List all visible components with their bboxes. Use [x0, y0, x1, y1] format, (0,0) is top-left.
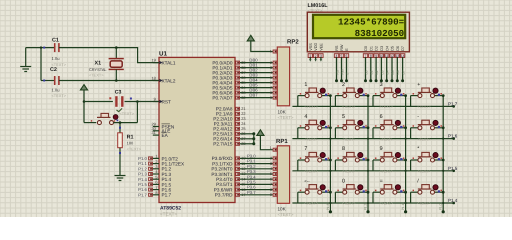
svg-text:3: 3 [380, 82, 383, 88]
svg-text:+: + [417, 82, 420, 88]
svg-text:VDD: VDD [314, 43, 318, 51]
svg-text:P1.3: P1.3 [326, 203, 330, 210]
wire keypad column 1 [329, 96, 331, 212]
svg-text:<TEXT>: <TEXT> [380, 202, 393, 206]
pin 29 PSEN [153, 126, 159, 128]
svg-text:7: 7 [304, 146, 307, 152]
resistor pack RP2 [277, 47, 289, 106]
svg-text:=: = [380, 178, 383, 184]
svg-text:<TEXT>: <TEXT> [417, 105, 430, 109]
push button key + [411, 95, 419, 97]
wire keypad row P1.7 [292, 105, 453, 107]
pin 9 RST [153, 101, 159, 103]
svg-text:P1.7: P1.7 [162, 193, 172, 198]
push button key = [373, 191, 381, 193]
wire C3 to RST [125, 101, 160, 103]
svg-text:<TEXT>: <TEXT> [380, 105, 393, 109]
svg-text:D0: D0 [364, 70, 368, 74]
svg-text:<TEXT>: <TEXT> [304, 170, 317, 174]
svg-text:<TEXT>: <TEXT> [380, 137, 393, 141]
push button key 3 [373, 95, 381, 97]
svg-text:C2: C2 [50, 67, 57, 73]
svg-text:D6: D6 [396, 70, 400, 74]
ground [25, 48, 27, 67]
wire keypad column 2 [367, 96, 369, 212]
reset button [84, 122, 96, 124]
wire P2.5 P2.6 P2.7 tie [240, 133, 254, 135]
svg-text:8: 8 [155, 190, 157, 195]
svg-text:C3: C3 [115, 89, 122, 95]
svg-text:838102050: 838102050 [355, 28, 405, 39]
svg-text:RS: RS [335, 70, 339, 74]
svg-text:9: 9 [380, 146, 383, 152]
svg-text:10K: 10K [278, 207, 287, 212]
wire keypad row P1.4 [292, 202, 453, 204]
svg-text:RS: RS [335, 45, 339, 51]
push button key 7 [298, 159, 306, 161]
wire keypad row P1.6 [292, 138, 453, 140]
svg-text:U1: U1 [159, 50, 167, 57]
wire ground to C1 [26, 47, 55, 49]
push button key - [411, 127, 419, 129]
svg-text:AT89C52: AT89C52 [160, 206, 181, 212]
svg-text:D4: D4 [386, 70, 390, 74]
svg-text:EA: EA [162, 133, 169, 138]
svg-text:D6: D6 [396, 46, 400, 51]
svg-text:VSS: VSS [309, 43, 313, 51]
svg-text:P0.7/AD7: P0.7/AD7 [212, 95, 232, 100]
svg-text:<TEXT>: <TEXT> [120, 111, 135, 116]
wire keypad column 4 [442, 96, 444, 212]
resistor pack RP1 [277, 146, 289, 204]
svg-text:RW: RW [340, 69, 344, 74]
IC U1 AT89C52 [159, 57, 235, 202]
pin 18 XTAL2 [153, 80, 159, 82]
svg-text:RP2: RP2 [287, 38, 299, 45]
resistor R1 [119, 123, 121, 133]
power vcc arrow A1 [80, 85, 87, 90]
svg-text:8: 8 [342, 146, 345, 152]
svg-text:6: 6 [380, 114, 383, 120]
push button key 6 [373, 127, 381, 129]
power vcc arrow A2 to RP2 pin 1 [247, 35, 254, 41]
svg-text:1: 1 [270, 50, 272, 54]
push button key 5 [335, 127, 343, 129]
svg-text:D0: D0 [364, 46, 368, 51]
svg-text:<TEXT>: <TEXT> [160, 212, 177, 217]
svg-text:RP1: RP1 [276, 138, 288, 145]
svg-text:P1.0: P1.0 [439, 203, 443, 210]
svg-text:P1.1: P1.1 [401, 203, 405, 210]
svg-text:<TEXT>: <TEXT> [342, 137, 355, 141]
svg-text:P2.7/A15: P2.7/A15 [213, 142, 233, 147]
svg-text:D5: D5 [391, 70, 395, 74]
wire C2 to XTAL2 [59, 80, 159, 82]
svg-text:<TEXT>: <TEXT> [304, 137, 317, 141]
svg-text:<TEXT>: <TEXT> [278, 115, 294, 120]
svg-text:D5: D5 [391, 46, 395, 51]
svg-text:D3: D3 [380, 46, 384, 51]
wire C1 to XTAL1 [59, 48, 159, 63]
push button key 2 [335, 95, 343, 97]
svg-text:D3: D3 [380, 70, 384, 74]
svg-text:P3.7: P3.7 [247, 190, 256, 195]
svg-text:P1.4: P1.4 [448, 198, 458, 203]
svg-text:<--: <-- [304, 178, 310, 183]
svg-text:D7: D7 [402, 70, 406, 74]
svg-text:<TEXT>: <TEXT> [380, 170, 393, 174]
wire keypad column 3 [405, 96, 407, 212]
svg-text:P1.7: P1.7 [448, 101, 458, 106]
svg-text:<TEXT>: <TEXT> [342, 105, 355, 109]
svg-text:<TEXT>: <TEXT> [342, 202, 355, 206]
capacitor C3 [109, 97, 111, 99]
svg-text:9: 9 [270, 95, 272, 100]
svg-text:1: 1 [270, 146, 272, 150]
push button key * [411, 159, 419, 161]
svg-text:10K: 10K [278, 109, 287, 114]
svg-text:18: 18 [151, 76, 155, 81]
push button key / [411, 191, 419, 193]
svg-text:DB7: DB7 [249, 93, 258, 98]
push button key 9 [373, 159, 381, 161]
svg-text:P1.7: P1.7 [138, 192, 147, 197]
svg-text:9: 9 [154, 97, 156, 102]
svg-text:<TEXT>: <TEXT> [89, 73, 104, 78]
svg-text:<TEXT>: <TEXT> [417, 137, 430, 141]
svg-text:P1.5: P1.5 [448, 166, 458, 171]
svg-text:RW: RW [340, 44, 344, 51]
svg-text:D2: D2 [375, 46, 379, 51]
wire vcc to reset node [83, 90, 85, 123]
pin 31 EA [153, 134, 159, 136]
svg-text:C1: C1 [52, 37, 59, 43]
svg-text:12345*67890=: 12345*67890= [338, 17, 405, 28]
svg-text:31: 31 [151, 130, 155, 135]
power vcc arrow A3 to RP1 pin 1 [257, 130, 264, 136]
svg-text:<TEXT>: <TEXT> [52, 62, 67, 67]
svg-text:<TEXT>: <TEXT> [342, 170, 355, 174]
svg-text:D7: D7 [401, 46, 405, 51]
svg-text:VEE: VEE [320, 43, 324, 51]
svg-text:19: 19 [151, 58, 155, 63]
wire R1 to ground [119, 148, 121, 176]
svg-text:P1.2: P1.2 [363, 203, 367, 210]
svg-text:D2: D2 [375, 70, 379, 74]
svg-text:<TEXT>: <TEXT> [304, 105, 317, 109]
svg-text:XTAL1: XTAL1 [162, 61, 176, 66]
svg-text:<TEXT>: <TEXT> [417, 202, 430, 206]
svg-text:D1: D1 [370, 70, 374, 74]
svg-text:<TEXT>: <TEXT> [304, 202, 317, 206]
svg-text:100: 100 [127, 140, 134, 145]
pin 30 ALE [153, 130, 159, 132]
svg-text:E: E [345, 72, 349, 74]
svg-text:P1.6: P1.6 [448, 134, 458, 139]
svg-text:5: 5 [342, 114, 345, 120]
pin 19 XTAL1 [153, 62, 159, 64]
push button key backspace [298, 191, 306, 193]
wire reset button to R1 and RST net [113, 122, 137, 124]
svg-text:D1: D1 [369, 46, 373, 51]
svg-text:E: E [345, 48, 349, 51]
push button key 0 [335, 191, 343, 193]
svg-text:<TEXT>: <TEXT> [278, 212, 294, 217]
svg-text:2: 2 [342, 82, 345, 88]
svg-text:0: 0 [342, 178, 345, 184]
svg-text:1: 1 [304, 82, 307, 88]
crystal X1 [115, 46, 118, 49]
svg-text:1.0u: 1.0u [52, 87, 60, 92]
svg-text:<TEXT>: <TEXT> [52, 93, 67, 98]
wire vcc to C3 [84, 101, 113, 103]
push button key 4 [298, 127, 306, 129]
capacitor C2 [41, 80, 55, 82]
svg-text:<TEXT>: <TEXT> [417, 170, 430, 174]
ground [115, 175, 126, 177]
capacitor C1 [54, 43, 56, 52]
svg-text:P3.7/RD: P3.7/RD [215, 193, 233, 198]
svg-text:4: 4 [304, 114, 307, 120]
svg-text:9: 9 [270, 192, 272, 197]
svg-text:RST: RST [162, 99, 172, 104]
svg-text:CRYSTAL: CRYSTAL [89, 67, 107, 72]
svg-text:X1: X1 [95, 60, 102, 66]
svg-text:D4: D4 [385, 46, 389, 51]
wire C1-C2 left common [40, 48, 42, 81]
push button key 8 [335, 159, 343, 161]
svg-text:1.0u: 1.0u [52, 56, 60, 61]
svg-text:-: - [417, 114, 419, 120]
push button key 1 [298, 95, 306, 97]
svg-text:XTAL2: XTAL2 [162, 78, 176, 83]
svg-text:<TEXT>: <TEXT> [127, 146, 142, 151]
wire keypad row P1.5 [292, 170, 453, 172]
